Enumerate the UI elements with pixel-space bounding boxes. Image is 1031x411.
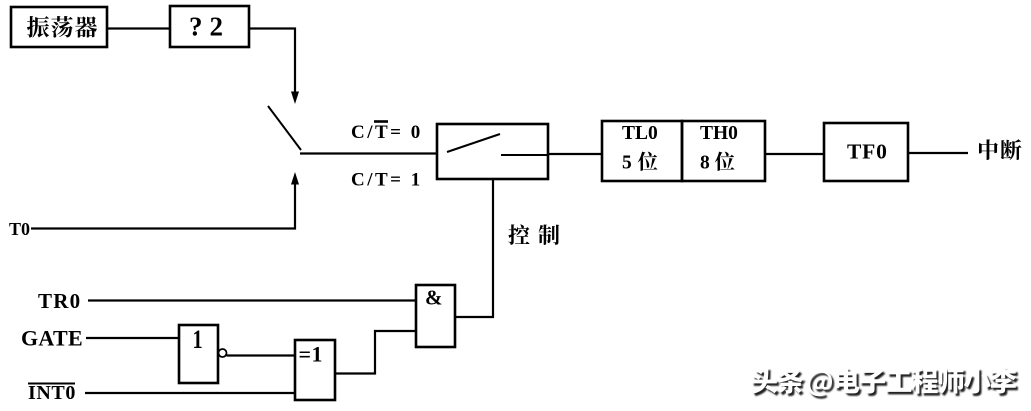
wire NOT output to XOR gate bbox=[227, 354, 296, 356]
wire TF0 to interrupt bbox=[908, 152, 968, 154]
svg-text:1: 1 bbox=[193, 326, 203, 355]
wire T0 input with up arrow bbox=[31, 172, 299, 229]
svg-text:TR0: TR0 bbox=[38, 289, 81, 313]
gate AND (&) bbox=[416, 285, 455, 347]
label INT0 (active low) bbox=[28, 382, 76, 404]
svg-text:GATE: GATE bbox=[21, 326, 83, 351]
block TL0 5-bit register bbox=[602, 121, 682, 181]
wire divider output down to switch (arrow) bbox=[249, 29, 299, 105]
block oscillator (振荡器) bbox=[11, 7, 107, 47]
wire TR0 to AND gate bbox=[88, 299, 416, 301]
wire XOR output to AND gate bbox=[335, 331, 416, 374]
wire switch common to control box bbox=[300, 152, 437, 154]
svg-text:?: ? bbox=[189, 12, 203, 42]
block TF0 overflow flag bbox=[824, 123, 908, 181]
watermark 头条 @电子工程师小李 bbox=[751, 367, 1018, 398]
wire control box to TL0 bbox=[548, 153, 602, 155]
svg-text:T0: T0 bbox=[9, 219, 30, 239]
gate XOR (=1) bbox=[295, 340, 335, 400]
svg-text:8: 8 bbox=[700, 153, 710, 174]
switch blade C/T selector bbox=[268, 106, 301, 150]
svg-text:=1: =1 bbox=[299, 342, 324, 367]
svg-text:INT0: INT0 bbox=[28, 382, 76, 404]
wire TH0 to TF0 bbox=[765, 153, 824, 155]
wire AND output to control box (control line) bbox=[455, 179, 493, 317]
svg-text:5: 5 bbox=[622, 153, 632, 174]
svg-text:C/T= 1: C/T= 1 bbox=[351, 170, 423, 191]
wire GATE to NOT gate bbox=[86, 337, 179, 339]
block divide-by-2 prescaler (? 2) bbox=[170, 6, 249, 47]
svg-text:2: 2 bbox=[210, 12, 224, 42]
wire INT0 to XOR gate bbox=[85, 392, 295, 394]
svg-text:TH0: TH0 bbox=[700, 123, 738, 144]
label control (控制) bbox=[508, 224, 529, 245]
block mode switch / control box bbox=[437, 124, 548, 179]
block TH0 8-bit register bbox=[682, 121, 765, 181]
gate NOT (1) with bubble bbox=[179, 325, 227, 383]
wire oscillator to divider bbox=[107, 27, 170, 29]
label C/T=0 bbox=[351, 122, 423, 144]
svg-text:TL0: TL0 bbox=[622, 123, 658, 144]
svg-text:C/T= 0: C/T= 0 bbox=[351, 122, 423, 143]
svg-text:&: & bbox=[425, 286, 443, 310]
label interrupt (中断) bbox=[979, 139, 998, 160]
svg-text:TF0: TF0 bbox=[847, 140, 888, 164]
